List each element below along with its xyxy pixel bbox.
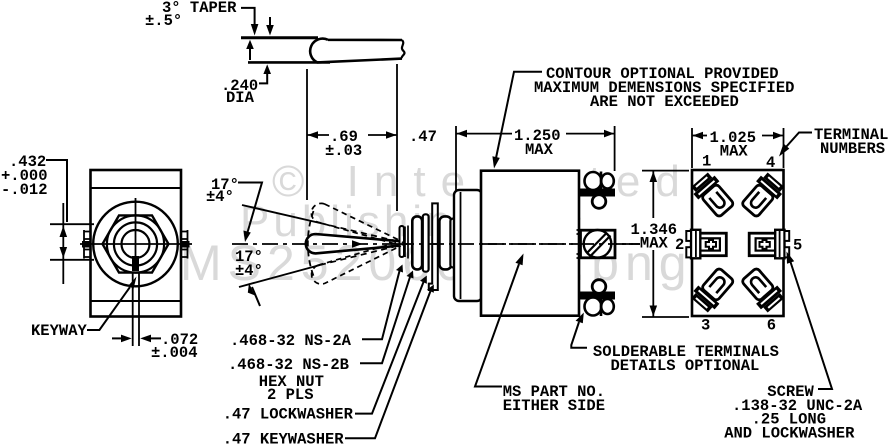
arrow up to bottom line (263, 64, 271, 74)
keyway slot lines (133, 272, 139, 346)
rear body rectangle (692, 170, 784, 316)
lower angle leader (252, 287, 260, 306)
terminal 6 (738, 265, 786, 314)
hex nut 2 (439, 216, 451, 269)
arrow up 1.346 (650, 171, 658, 182)
inner top line (91, 187, 182, 189)
terminal 1 (689, 170, 737, 219)
lower angle arrow up (248, 283, 255, 295)
keyway leader (87, 287, 130, 330)
dim .69 arrow left (308, 131, 319, 139)
arrow down .432 (60, 247, 68, 258)
svg-text:1: 1 (702, 153, 711, 171)
svg-text:EITHER SIDE: EITHER SIDE (503, 397, 605, 415)
left side tab (84, 230, 91, 259)
dim 1.025 extension left (691, 128, 693, 168)
dim 1.346 vertical line (652, 171, 654, 317)
upper min-throw line solid part (242, 205, 320, 223)
right side tab (181, 230, 188, 259)
upper angle leader (238, 183, 262, 235)
dashed upper lever position (309, 235, 404, 287)
arrow down second (269, 17, 271, 26)
svg-text:4: 4 (766, 154, 775, 172)
dim 1.025 extension right (783, 128, 785, 168)
svg-text:2: 2 (675, 236, 684, 254)
lever break line right end (402, 40, 405, 59)
top terminal screw (580, 172, 615, 209)
terminal 3 (689, 265, 737, 314)
bottom terminal screw (580, 280, 615, 316)
dim 1.250 extension left (455, 126, 457, 190)
svg-text:±.004: ±.004 (151, 344, 198, 362)
arrow left 1.250 (457, 130, 468, 138)
svg-text:3: 3 (701, 317, 710, 335)
svg-text:DIA: DIA (226, 89, 255, 107)
arrow left to keyway line (151, 337, 161, 339)
dim line vertical .432 (62, 203, 64, 284)
arrow right to keyway line (112, 337, 122, 339)
leader NS-2B (360, 277, 410, 363)
bottom reference line (248, 61, 330, 64)
middle terminal screw (577, 230, 616, 258)
leader from .432 (46, 160, 67, 222)
svg-text:2 PLS: 2 PLS (267, 386, 314, 404)
svg-text:AND LOCKWASHER: AND LOCKWASHER (724, 425, 855, 443)
extension line left x307 (306, 69, 308, 200)
lower min-throw line dashed part (320, 245, 403, 266)
outer circle (93, 202, 178, 287)
arrowhead on centerline (352, 240, 363, 248)
svg-text:MAX: MAX (720, 143, 749, 161)
terminal 2 (686, 230, 726, 258)
upper angle arrow (243, 231, 250, 243)
arrow down taper (251, 24, 259, 36)
dim .69 arrow right (386, 131, 397, 139)
svg-text:MAX: MAX (525, 141, 554, 159)
contour leader (496, 72, 542, 158)
svg-text:.47: .47 (409, 128, 437, 146)
horizontal centerline (80, 243, 192, 245)
screw leader (791, 262, 833, 389)
upper min-throw line dashed part (320, 223, 403, 243)
svg-text:ARE NOT EXCEEDED: ARE NOT EXCEEDED (590, 93, 739, 111)
arrow up below top line (246, 40, 254, 49)
svg-text:KEYWAY: KEYWAY (31, 322, 88, 340)
dashed swing arc (308, 211, 314, 276)
front flange (454, 190, 482, 301)
leader lockwasher (355, 282, 424, 414)
terminal 4 (738, 170, 786, 219)
leader NS-2A (362, 271, 400, 339)
dim 1.025 line right arrow (762, 135, 784, 137)
lever ferrule (400, 226, 405, 257)
hex nut (103, 215, 169, 272)
front view body rectangle (91, 170, 182, 317)
bushing threads (405, 226, 408, 259)
hole circle (122, 230, 150, 258)
arrow right 1.250 (604, 130, 614, 138)
dia extension line top (50, 223, 94, 225)
keywasher plate (429, 203, 438, 290)
centerline overlay through stack and body (398, 243, 640, 245)
thread circle (114, 222, 157, 265)
arrow up .432 (60, 226, 68, 237)
svg-text:-.012: -.012 (1, 181, 48, 199)
dim 1.250 line (456, 133, 615, 135)
dim 1.346 extension bottom (642, 316, 689, 318)
lever bat outline (310, 39, 402, 63)
svg-text:NUMBERS: NUMBERS (820, 140, 885, 158)
hex nut 1 (412, 216, 422, 269)
horizontal dash-dot centerline (232, 243, 640, 245)
dim .69 line left segment (307, 134, 329, 136)
lower min-throw line solid part (239, 265, 320, 287)
body centerline dashes (481, 243, 640, 245)
solderable leader (571, 322, 587, 348)
svg-text:.47 LOCKWASHER: .47 LOCKWASHER (223, 406, 354, 424)
svg-text:6: 6 (767, 317, 776, 335)
terminal 5 (749, 230, 789, 258)
svg-text:±.03: ±.03 (325, 142, 362, 160)
dashed lower lever position (309, 201, 404, 253)
svg-text:5: 5 (793, 237, 802, 255)
svg-text:.47 KEYWASHER: .47 KEYWASHER (223, 430, 345, 447)
vertical centerline (135, 198, 137, 258)
lockwasher 1 (423, 214, 429, 271)
svg-text:±.5°: ±.5° (145, 12, 182, 30)
dim 1.346 extension top (642, 170, 689, 172)
leader from .240 (259, 73, 267, 83)
svg-text:.468-32 NS-2A: .468-32 NS-2A (230, 332, 352, 350)
ms part leader (475, 264, 519, 387)
lockwasher 2 (450, 219, 455, 268)
dim 1.250 extension right (614, 126, 616, 171)
terminal numbers leader (786, 133, 812, 148)
keyway leader arrowhead (129, 277, 137, 290)
top reference line (241, 36, 318, 39)
svg-text:±4°: ±4° (206, 188, 234, 206)
dia extension line bottom (50, 259, 94, 261)
svg-text:±4°: ±4° (235, 262, 263, 280)
svg-text:MAX: MAX (640, 235, 669, 253)
arrow down 1.346 (650, 306, 658, 317)
keyway notch (132, 256, 139, 271)
leader keywasher (345, 291, 431, 438)
svg-text:DETAILS OPTIONAL: DETAILS OPTIONAL (611, 357, 760, 375)
extension line right x397 (396, 64, 398, 211)
main body rectangle (481, 171, 579, 316)
leader from TAPER label (241, 8, 255, 24)
solid lever center position (306, 234, 400, 253)
bushing circle (107, 215, 164, 272)
dim 1.025 line left arrow (692, 135, 707, 137)
dim .69 line right segment (368, 134, 397, 136)
flange inner line (460, 192, 462, 299)
inner bottom line (91, 300, 182, 302)
svg-text:.468-32 NS-2B: .468-32 NS-2B (228, 356, 349, 374)
